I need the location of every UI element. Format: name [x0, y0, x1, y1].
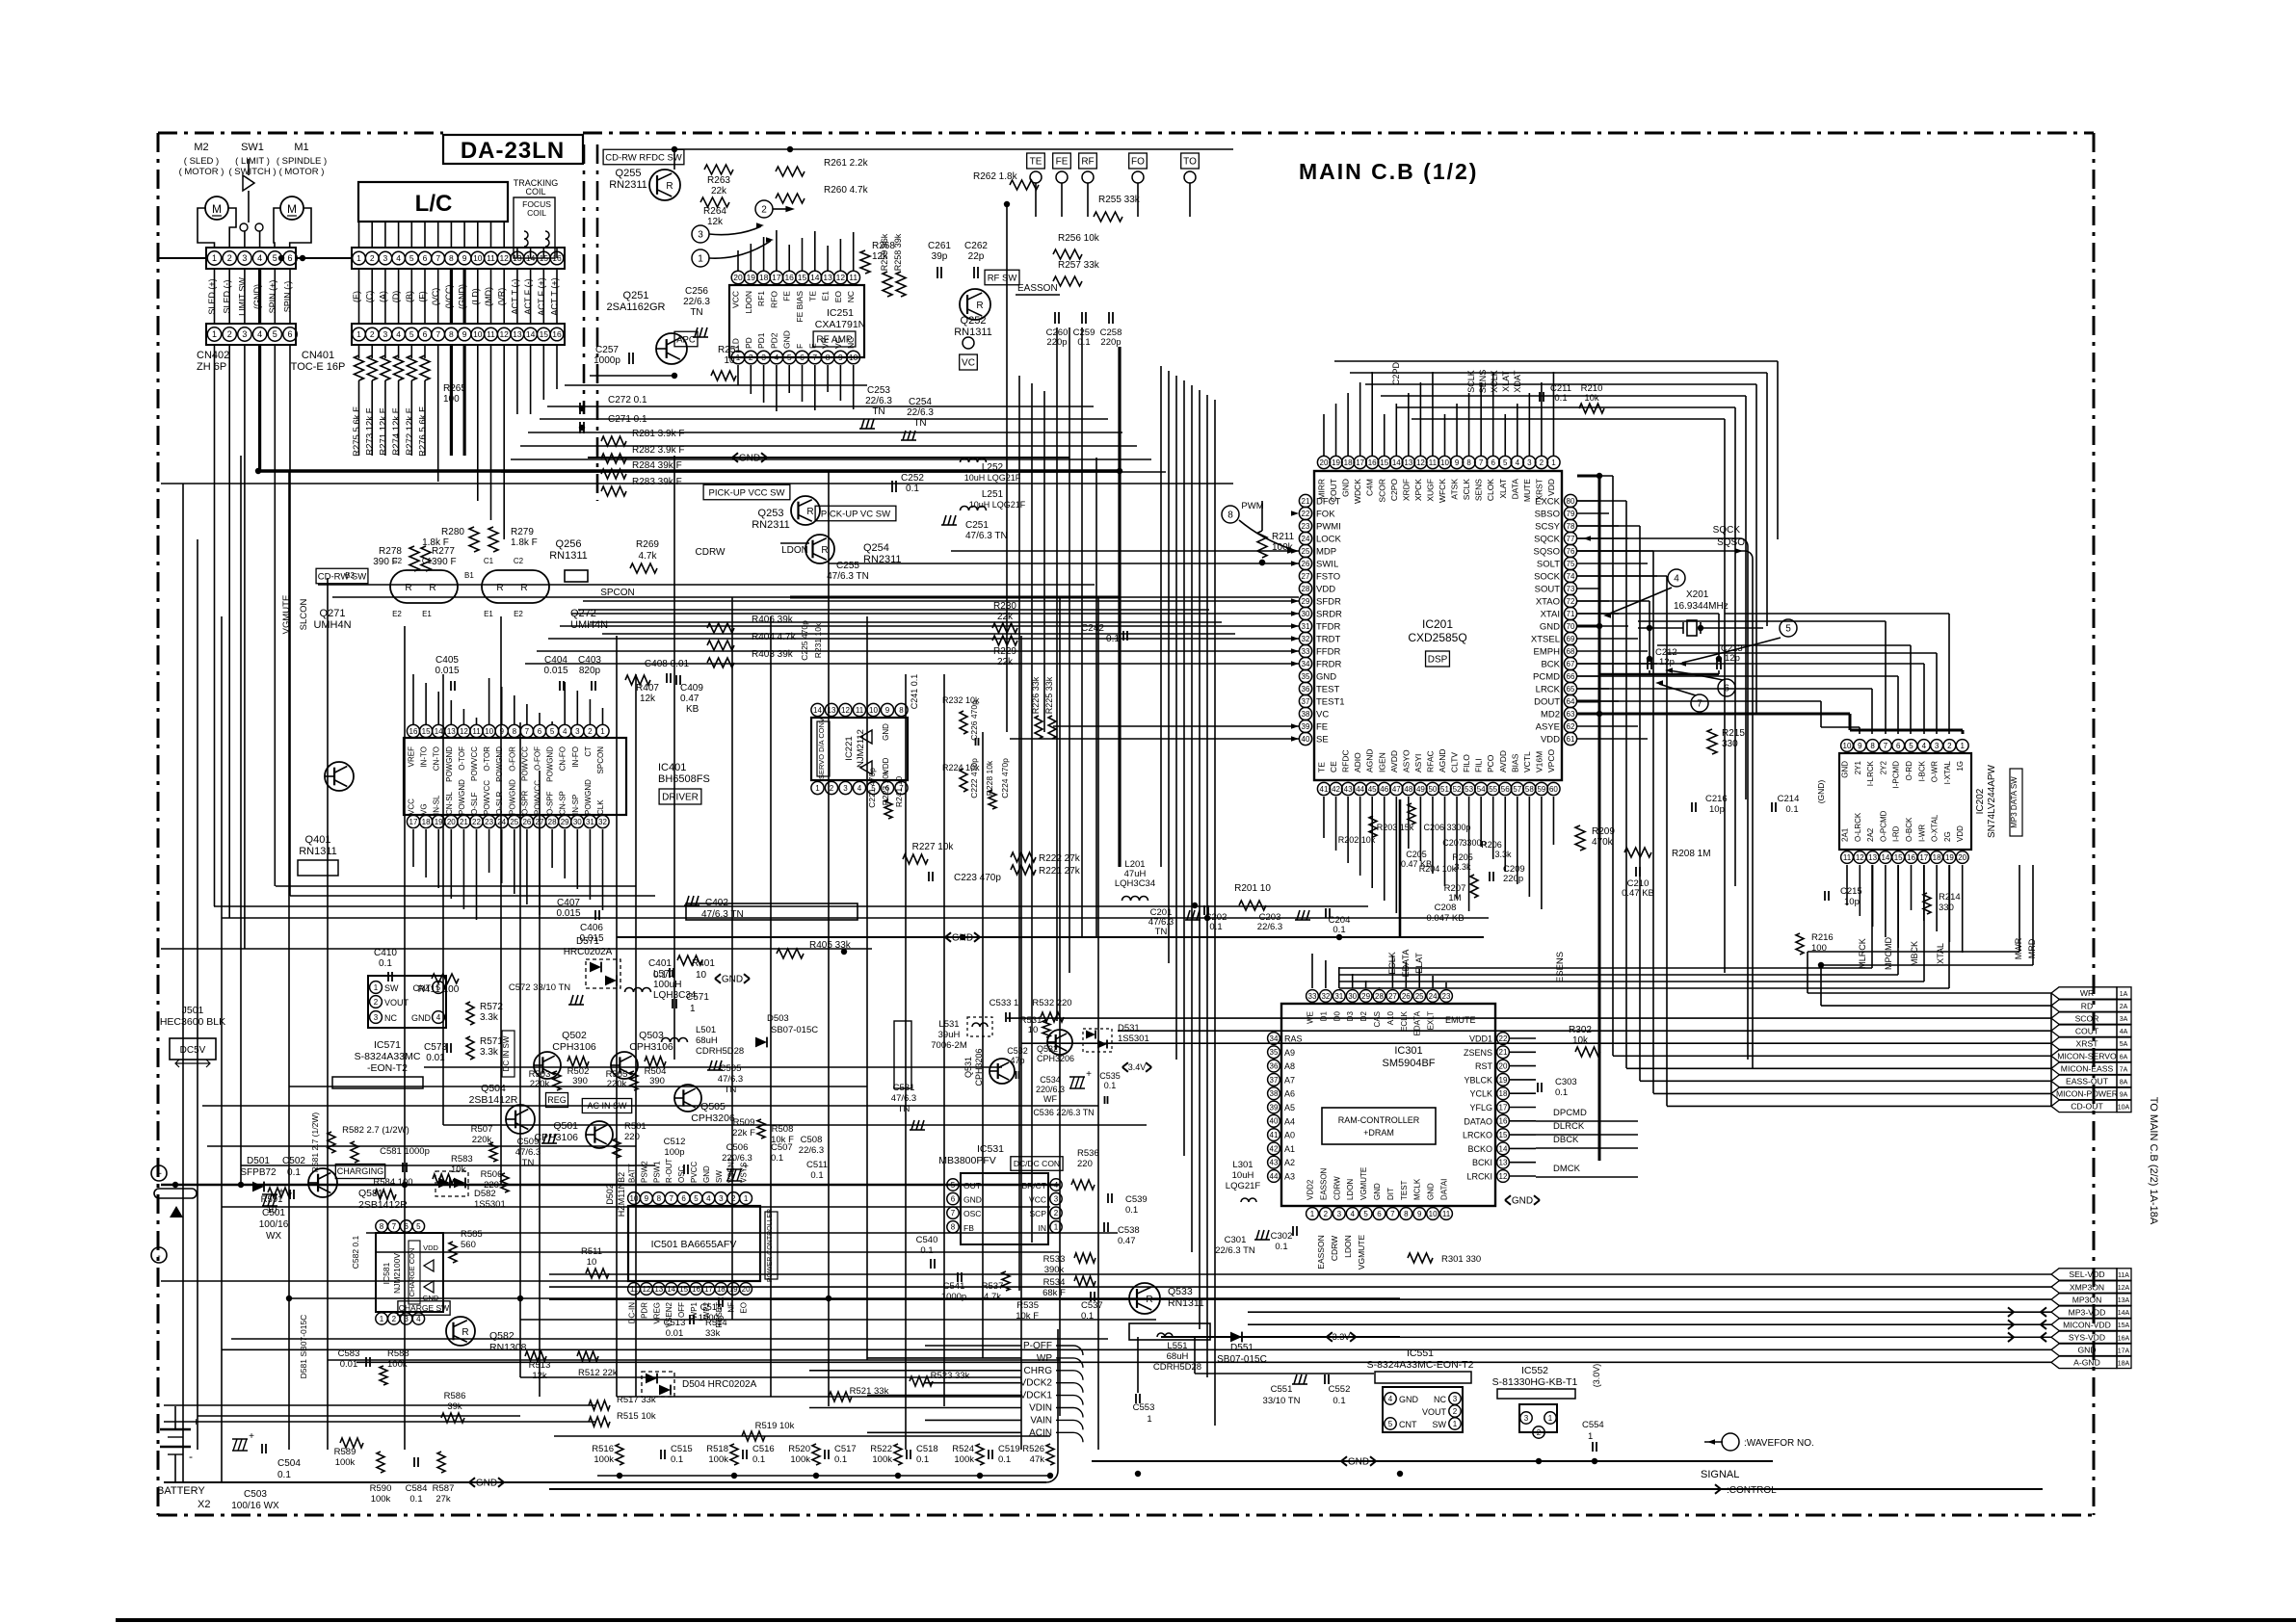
svg-text:12: 12	[1499, 1172, 1508, 1181]
svg-text:EO: EO	[833, 291, 843, 303]
svg-text:2: 2	[1537, 1428, 1542, 1437]
svg-text:C252: C252	[901, 473, 924, 484]
long horizontals lower mid	[214, 905, 1368, 907]
svg-text:8: 8	[1870, 742, 1875, 750]
svg-text:C262: C262	[964, 241, 988, 251]
svg-text:DA-23LN: DA-23LN	[461, 138, 565, 164]
svg-text:R516: R516	[592, 1444, 614, 1454]
svg-text:CD-RW RFDC SW: CD-RW RFDC SW	[605, 152, 682, 163]
wire left frame to CN402	[158, 257, 206, 259]
IC221 top pins 14-8	[811, 703, 824, 716]
svg-text:71: 71	[1567, 610, 1575, 618]
svg-text:29: 29	[1361, 992, 1370, 1001]
svg-text:1: 1	[1453, 1420, 1458, 1428]
svg-text:I-BCK: I-BCK	[1917, 760, 1926, 781]
svg-text:C584: C584	[406, 1483, 428, 1494]
svg-text:16: 16	[1907, 853, 1915, 862]
wire fan nested loops above IC201 right	[1334, 360, 1778, 362]
svg-text:9: 9	[1417, 1210, 1422, 1218]
svg-text:RN2311: RN2311	[752, 519, 790, 531]
svg-text:12: 12	[460, 727, 468, 736]
svg-text:POWVCC: POWVCC	[470, 746, 479, 781]
svg-text:ZSENS: ZSENS	[1464, 1048, 1492, 1058]
svg-text:TO MAIN C.B (2/2) 1A-18A: TO MAIN C.B (2/2) 1A-18A	[2148, 1097, 2159, 1225]
svg-text:CLOK: CLOK	[1486, 479, 1495, 501]
svg-text:C255: C255	[836, 561, 859, 571]
svg-text:4: 4	[858, 784, 862, 793]
svg-text:A-GND: A-GND	[2073, 1358, 2100, 1368]
IC581 NJM2100V charge con	[376, 1233, 443, 1312]
svg-text:L571: L571	[653, 969, 675, 980]
svg-text:17: 17	[409, 818, 418, 826]
svg-text:10: 10	[473, 329, 483, 339]
svg-text:4: 4	[1350, 1210, 1355, 1218]
svg-text:14: 14	[1392, 458, 1401, 467]
svg-text:GND: GND	[1316, 672, 1336, 683]
svg-text:0.015: 0.015	[435, 666, 459, 676]
svg-text:Q251: Q251	[623, 290, 649, 301]
svg-text:2A1: 2A1	[1841, 827, 1850, 842]
svg-text:58: 58	[1525, 785, 1534, 794]
svg-text:D1: D1	[1319, 1010, 1328, 1021]
svg-text:CNT: CNT	[1399, 1420, 1417, 1429]
svg-text:BCKI: BCKI	[1472, 1158, 1492, 1167]
svg-text:2: 2	[588, 727, 593, 736]
svg-text:DRIVER: DRIVER	[662, 793, 699, 803]
IC501 BA6655AFV body	[628, 1206, 760, 1281]
svg-text:HEC3600 BLK: HEC3600 BLK	[160, 1016, 225, 1028]
svg-text:0.1: 0.1	[1106, 634, 1120, 644]
svg-text:13: 13	[654, 1285, 663, 1294]
svg-text:6: 6	[800, 353, 805, 362]
svg-text:IC571: IC571	[374, 1039, 401, 1051]
svg-text:PSW2: PSW2	[640, 1161, 648, 1183]
svg-text:SIGNAL: SIGNAL	[1701, 1469, 1739, 1480]
svg-text:3.3k: 3.3k	[480, 1047, 499, 1058]
svg-text:4: 4	[436, 1013, 441, 1022]
svg-text:GND: GND	[882, 723, 890, 741]
svg-text:A2: A2	[1284, 1158, 1295, 1167]
svg-text:15: 15	[1499, 1131, 1508, 1139]
svg-text:LRCKO: LRCKO	[1463, 1131, 1492, 1140]
svg-text:SOUT: SOUT	[1535, 585, 1561, 595]
svg-text:C205: C205	[1406, 850, 1427, 859]
svg-text:220p: 220p	[1100, 337, 1121, 348]
svg-text:O-TOR: O-TOR	[483, 746, 491, 772]
svg-text:M: M	[212, 202, 222, 216]
svg-text:RN2311: RN2311	[609, 179, 647, 191]
svg-text:R582 2.7 (1/2W): R582 2.7 (1/2W)	[342, 1125, 409, 1136]
svg-text:1G: 1G	[1956, 761, 1965, 772]
svg-text:1: 1	[815, 784, 820, 793]
svg-text:4: 4	[1922, 742, 1927, 750]
svg-text:RF SW: RF SW	[988, 273, 1017, 283]
svg-text:VGMUTE: VGMUTE	[281, 595, 292, 635]
svg-text:POWVCC: POWVCC	[520, 746, 529, 781]
svg-text:RAM-CONTROLLER: RAM-CONTROLLER	[1338, 1115, 1420, 1125]
svg-text:SLED (-): SLED (-)	[223, 279, 232, 313]
svg-text:CE: CE	[1329, 761, 1338, 772]
svg-text:R519 10k: R519 10k	[755, 1421, 795, 1431]
svg-text:3.3k: 3.3k	[1454, 862, 1471, 872]
transistor pair Q272 UMH4N	[482, 570, 549, 603]
svg-text:(VCC): (VCC)	[444, 285, 454, 309]
connector group SEL-VDD..A-GND (11A-18A)	[2051, 1269, 2117, 1280]
svg-text:D502: D502	[605, 1184, 615, 1205]
svg-text:76: 76	[1567, 547, 1575, 556]
svg-text:12: 12	[642, 1285, 650, 1294]
svg-text:O-LRCK: O-LRCK	[1854, 812, 1862, 842]
test points TE FE RF FO TO	[1027, 153, 1045, 169]
svg-text:C516: C516	[752, 1444, 775, 1454]
svg-text:0.1: 0.1	[1125, 1205, 1138, 1216]
svg-text:VDD2: VDD2	[1306, 1179, 1315, 1200]
svg-text:3: 3	[242, 329, 247, 339]
svg-text:2SA1162GR: 2SA1162GR	[607, 301, 666, 313]
svg-text:C406: C406	[580, 923, 603, 933]
svg-text:R-OUT: R-OUT	[665, 1159, 673, 1183]
svg-text:WDCK: WDCK	[1353, 479, 1362, 504]
svg-text:38: 38	[1302, 710, 1310, 719]
svg-text:46: 46	[1380, 785, 1388, 794]
svg-text:10: 10	[869, 706, 878, 715]
svg-text:PCO: PCO	[1486, 754, 1495, 772]
svg-text:CAS: CAS	[1373, 1011, 1382, 1027]
svg-text:SW: SW	[1433, 1420, 1447, 1429]
svg-text:SB07-015C: SB07-015C	[771, 1025, 818, 1035]
svg-text:CN-TO: CN-TO	[433, 746, 441, 771]
svg-text:EASSON: EASSON	[1017, 283, 1058, 294]
svg-text:E1: E1	[484, 610, 493, 618]
svg-text:FB: FB	[963, 1223, 974, 1233]
svg-text:65: 65	[1567, 685, 1575, 694]
svg-text:22: 22	[472, 818, 481, 826]
svg-text:IC531: IC531	[977, 1143, 1004, 1155]
svg-text:IN-TO: IN-TO	[420, 746, 429, 768]
svg-text:C501: C501	[262, 1208, 285, 1218]
svg-text:SCP: SCP	[1030, 1209, 1047, 1218]
svg-text:C222 470p: C222 470p	[969, 758, 979, 798]
svg-text:ECLK: ECLK	[1387, 952, 1397, 975]
svg-text:SCSY: SCSY	[1535, 522, 1561, 533]
svg-text:AGND: AGND	[1365, 748, 1375, 772]
IC401 BH6508FS body	[404, 738, 626, 815]
svg-text:77: 77	[1567, 535, 1575, 543]
svg-text:78: 78	[1567, 522, 1575, 531]
svg-text:WR: WR	[2080, 988, 2094, 998]
svg-text:6: 6	[681, 1194, 686, 1203]
svg-text:CHRG: CHRG	[1024, 1366, 1053, 1376]
svg-text:9: 9	[1858, 742, 1862, 750]
svg-text:SWIL: SWIL	[1316, 560, 1338, 570]
svg-text:R581 2.7 (1/2W): R581 2.7 (1/2W)	[310, 1113, 320, 1173]
svg-text:TN: TN	[522, 1158, 535, 1168]
svg-text:2A: 2A	[2120, 1004, 2128, 1010]
wire bus left-mid horizontals to IC201	[318, 584, 1095, 586]
svg-text:I-PCMD: I-PCMD	[1892, 761, 1901, 789]
svg-text:(A): (A)	[378, 291, 387, 302]
svg-text:IN: IN	[1039, 1223, 1047, 1233]
svg-text:PDR: PDR	[640, 1302, 648, 1319]
IC201 top pin wires	[1323, 414, 1325, 456]
svg-text:11: 11	[630, 1285, 639, 1294]
svg-text:8: 8	[899, 706, 904, 715]
svg-text:6: 6	[1491, 458, 1495, 467]
svg-text:GND: GND	[1348, 1457, 1369, 1468]
svg-text:VPCO: VPCO	[1546, 749, 1556, 772]
svg-text:3.4V: 3.4V	[1128, 1062, 1147, 1072]
resistor R214 330	[1923, 893, 1931, 914]
svg-text:13: 13	[1868, 853, 1877, 862]
svg-text:43: 43	[1270, 1159, 1279, 1167]
svg-text:TN: TN	[1155, 927, 1168, 937]
svg-text:53: 53	[1465, 785, 1473, 794]
svg-text:5: 5	[1909, 742, 1913, 750]
svg-text:FE BIAS: FE BIAS	[795, 291, 805, 323]
svg-text:O-PCMD: O-PCMD	[1879, 810, 1887, 842]
svg-text:C519: C519	[998, 1444, 1020, 1454]
svg-text:CPH3206: CPH3206	[691, 1113, 735, 1124]
svg-text:SCLK: SCLK	[1462, 479, 1471, 501]
svg-text:ELAT: ELAT	[1414, 953, 1424, 974]
svg-text:10uH: 10uH	[1232, 1170, 1254, 1181]
svg-text:CDRW: CDRW	[1330, 1236, 1339, 1261]
svg-text:25: 25	[510, 818, 518, 826]
svg-text:47/6.3: 47/6.3	[515, 1147, 541, 1158]
svg-text:14: 14	[667, 1285, 675, 1294]
svg-text:5: 5	[787, 353, 792, 362]
svg-text:4: 4	[257, 329, 262, 339]
svg-text:MB3800PFV: MB3800PFV	[938, 1155, 996, 1166]
svg-text:PWMI: PWMI	[1316, 522, 1341, 533]
svg-text:D0: D0	[1333, 1010, 1341, 1021]
svg-text:390 F: 390 F	[432, 557, 457, 567]
svg-text:3A: 3A	[2120, 1016, 2128, 1023]
svg-text:9: 9	[838, 353, 843, 362]
svg-text::CONTROL: :CONTROL	[1727, 1485, 1777, 1496]
svg-text:O-FOF: O-FOF	[534, 746, 542, 771]
svg-text:7: 7	[951, 1209, 956, 1217]
svg-text:ADIO: ADIO	[1353, 752, 1362, 772]
svg-text:R279: R279	[511, 527, 534, 537]
svg-text:LDON: LDON	[1343, 1235, 1353, 1258]
wires motor M2 to connector	[198, 208, 236, 248]
blank tall rect left of IC531	[894, 1021, 911, 1088]
svg-text:GND: GND	[1512, 1196, 1533, 1207]
svg-text:11: 11	[472, 727, 481, 736]
svg-text:C2: C2	[514, 557, 524, 565]
svg-text:32: 32	[598, 818, 607, 826]
svg-text:F: F	[795, 344, 805, 349]
svg-text:R211: R211	[1272, 532, 1295, 542]
svg-text:16: 16	[552, 329, 562, 339]
svg-text:+: +	[249, 1431, 254, 1442]
svg-text:LDON: LDON	[781, 545, 808, 556]
svg-text:C257: C257	[595, 345, 619, 355]
svg-text:35: 35	[1302, 672, 1310, 681]
svg-text:C208: C208	[1435, 903, 1457, 913]
waveform no 3	[692, 225, 709, 243]
boxed label RF SW	[985, 270, 1019, 285]
svg-text:7006-2M: 7006-2M	[931, 1040, 967, 1051]
svg-text:-: -	[157, 1251, 160, 1262]
wire verticals far right	[2050, 993, 2052, 1106]
svg-text:10: 10	[587, 1257, 597, 1268]
svg-text:C253: C253	[867, 385, 890, 396]
svg-text:R264: R264	[703, 206, 726, 217]
resistor row R275/R273/R271/R274/R272/R276 below CN401	[358, 345, 360, 358]
svg-text:69: 69	[1567, 635, 1575, 643]
svg-text:CN-FO: CN-FO	[559, 746, 567, 771]
svg-text:28: 28	[1375, 992, 1384, 1001]
svg-text:MDP: MDP	[1316, 547, 1336, 558]
svg-text:1: 1	[1548, 1414, 1553, 1423]
svg-text:26: 26	[1302, 560, 1310, 568]
svg-text:24: 24	[1429, 992, 1438, 1001]
svg-text:6: 6	[423, 329, 428, 339]
svg-text:1000p: 1000p	[594, 355, 620, 366]
svg-text:YFLG: YFLG	[1469, 1103, 1492, 1113]
svg-text:100/16 WX: 100/16 WX	[231, 1501, 279, 1511]
svg-text:A4: A4	[1284, 1116, 1295, 1126]
svg-text:7: 7	[1479, 458, 1484, 467]
svg-text:L301: L301	[1232, 1160, 1253, 1170]
svg-text:7: 7	[525, 727, 530, 736]
svg-text:CHARGE CON: CHARGE CON	[408, 1248, 416, 1297]
svg-text:2G: 2G	[1943, 831, 1952, 842]
svg-text:3: 3	[719, 1194, 724, 1203]
svg-text:CDRW: CDRW	[696, 547, 726, 558]
svg-text:0.1: 0.1	[771, 1153, 783, 1164]
svg-text:44: 44	[1270, 1172, 1279, 1181]
svg-text:1: 1	[1588, 1431, 1593, 1442]
svg-text:34: 34	[1270, 1034, 1279, 1043]
svg-text:12: 12	[1856, 853, 1864, 862]
svg-text:SFPB72: SFPB72	[240, 1167, 277, 1178]
svg-text:D551: D551	[1230, 1343, 1254, 1353]
svg-text:C403: C403	[578, 655, 601, 666]
svg-text:BATT: BATT	[628, 1164, 637, 1183]
svg-text:TOC-E 16P: TOC-E 16P	[291, 361, 346, 373]
svg-text:IC221: IC221	[844, 736, 855, 760]
svg-text:1: 1	[212, 253, 217, 263]
svg-text:54: 54	[1477, 785, 1486, 794]
svg-text:R583: R583	[451, 1154, 473, 1165]
svg-text:42: 42	[1332, 785, 1340, 794]
svg-text:C508: C508	[801, 1135, 823, 1145]
wires L/C to CN401	[358, 222, 360, 248]
svg-text:GND: GND	[1540, 622, 1560, 633]
svg-text:9: 9	[645, 1194, 649, 1203]
svg-text:C272 0.1: C272 0.1	[608, 395, 647, 406]
svg-text:47/6.3: 47/6.3	[891, 1093, 916, 1104]
svg-text:ACT T (-): ACT T (-)	[510, 278, 519, 314]
svg-text:13A: 13A	[2118, 1297, 2130, 1304]
svg-text:GND: GND	[411, 1013, 432, 1023]
svg-text:IC202: IC202	[1975, 788, 1986, 814]
transistor pair Q271 UMH4N	[390, 570, 458, 603]
svg-text:2: 2	[1324, 1210, 1329, 1218]
svg-text:C512: C512	[664, 1137, 686, 1147]
svg-text:RST: RST	[1475, 1061, 1493, 1071]
svg-text:12A: 12A	[2118, 1285, 2130, 1292]
svg-text:SM5904BF: SM5904BF	[1382, 1058, 1435, 1069]
IC201 CXD2585Q DSP	[1314, 471, 1562, 780]
svg-text:IC301: IC301	[1394, 1045, 1422, 1057]
svg-text:SPIN (-): SPIN (-)	[283, 281, 293, 313]
svg-text:SEL-VDD: SEL-VDD	[2069, 1270, 2104, 1279]
svg-text:GND: GND	[1373, 1183, 1382, 1200]
svg-text:R404 4.7k: R404 4.7k	[752, 632, 797, 642]
svg-text:( MOTOR ): ( MOTOR )	[179, 167, 224, 177]
svg-text:R229: R229	[993, 646, 1016, 657]
svg-text:R586: R586	[444, 1391, 466, 1401]
svg-text:3: 3	[698, 230, 703, 241]
svg-text:HRC0202A: HRC0202A	[564, 947, 613, 957]
svg-text:S-8324A33MC: S-8324A33MC	[355, 1051, 421, 1062]
svg-text:LQG21F: LQG21F	[1226, 1181, 1261, 1191]
svg-text:O-WR: O-WR	[1931, 761, 1940, 782]
IC301 bottom pins 1-11	[1306, 1208, 1319, 1220]
svg-text:A9: A9	[1284, 1048, 1295, 1058]
svg-text:C409: C409	[680, 683, 703, 694]
svg-text:100k: 100k	[708, 1454, 728, 1465]
svg-text:35: 35	[1270, 1048, 1279, 1057]
svg-text:SPCON: SPCON	[600, 588, 635, 598]
svg-text:WFCK: WFCK	[1438, 479, 1447, 503]
svg-text:R301 330: R301 330	[1441, 1254, 1481, 1265]
svg-text:R: R	[666, 181, 673, 192]
svg-text:(VC): (VC)	[431, 288, 440, 306]
capacitor C539 0.1	[1107, 1193, 1109, 1203]
svg-text:1: 1	[1551, 458, 1556, 467]
svg-text:C225 470p: C225 470p	[800, 620, 809, 661]
svg-text:IC552: IC552	[1521, 1365, 1548, 1376]
svg-text:ASYE: ASYE	[1536, 722, 1560, 733]
svg-text:330: 330	[1939, 903, 1954, 913]
boxed label CHARGING	[335, 1165, 384, 1179]
IC501 bottom pins 11-20	[628, 1283, 641, 1296]
svg-text:5: 5	[273, 253, 277, 263]
svg-text:6: 6	[1896, 742, 1901, 750]
svg-text:GND: GND	[1341, 479, 1351, 497]
svg-text:MWR: MWR	[2014, 937, 2023, 959]
svg-text:1S5301: 1S5301	[1118, 1034, 1149, 1044]
svg-text:C535: C535	[1099, 1071, 1121, 1081]
svg-text:66: 66	[1567, 672, 1575, 681]
IC201 left pin feed wires	[951, 550, 1299, 552]
svg-text:XTAL: XTAL	[1936, 943, 1945, 964]
capacitor C223 470p	[928, 872, 930, 881]
svg-text:20: 20	[1958, 853, 1966, 862]
wires IC202 bottom to left bus	[1871, 865, 1873, 968]
svg-text:12k: 12k	[640, 694, 656, 704]
svg-text:27k: 27k	[435, 1494, 451, 1505]
svg-text:IC251: IC251	[827, 307, 854, 319]
svg-text:R241 10: R241 10	[894, 776, 904, 807]
focus coil inductor	[545, 231, 549, 247]
boxed label MP3 DATA SW rotated	[2010, 769, 2022, 836]
svg-text:RFAC: RFAC	[1425, 750, 1435, 772]
svg-text:MRD: MRD	[2027, 938, 2037, 958]
svg-text:A8: A8	[1284, 1061, 1295, 1071]
svg-text:C1: C1	[422, 557, 433, 565]
svg-text:FILI: FILI	[1474, 758, 1484, 772]
svg-text:80: 80	[1567, 497, 1575, 506]
svg-text:BH6508FS: BH6508FS	[658, 773, 710, 785]
svg-text:O-XTAL: O-XTAL	[1931, 814, 1940, 842]
svg-text:47/6.3 TN: 47/6.3 TN	[827, 571, 869, 582]
